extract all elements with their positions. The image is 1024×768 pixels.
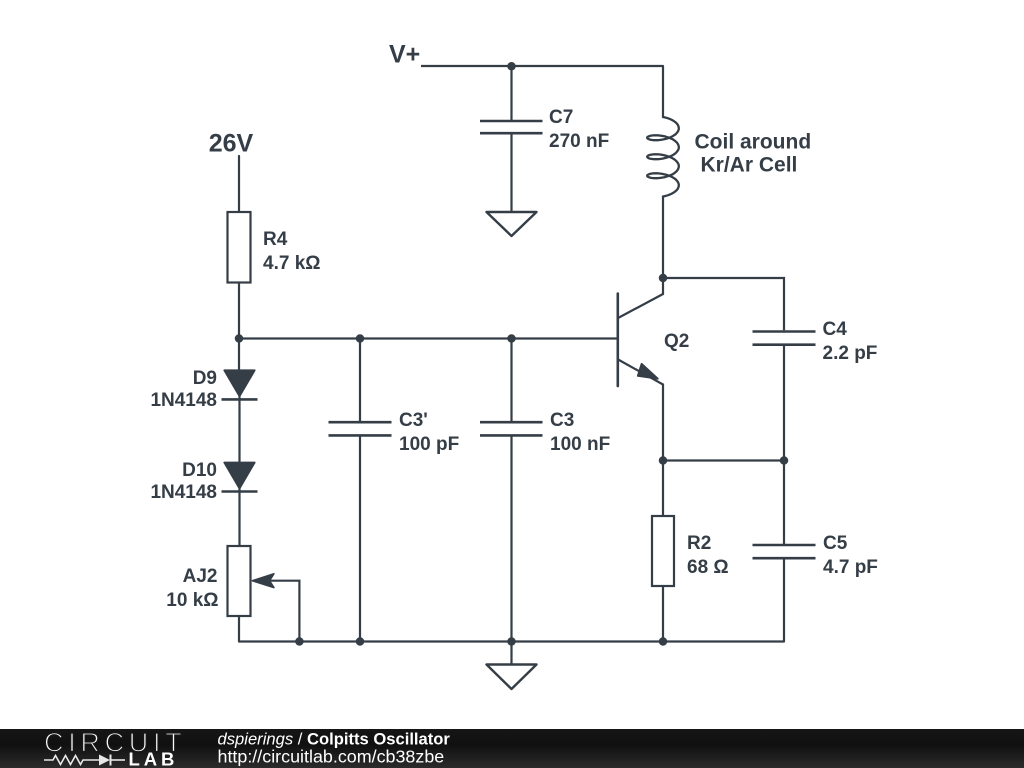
capacitor C3'	[329, 422, 392, 435]
wire collector vertical	[662, 278, 664, 294]
node junction dot wiper/bottom	[295, 637, 304, 646]
resistor R2	[652, 516, 674, 586]
node junction dot emitter/R2/C5 rail left	[659, 456, 668, 465]
wire C5 top lead	[783, 461, 785, 545]
wire wiper to bottom	[270, 581, 299, 642]
wire bottom rail	[239, 640, 784, 642]
wire coil bottom lead to collector node	[662, 197, 664, 279]
node junction dot ground/bottom	[507, 637, 516, 646]
wire C3' top lead	[359, 339, 361, 422]
svg-text:4.7 pF: 4.7 pF	[823, 557, 878, 578]
diode D9	[224, 370, 254, 396]
svg-text:Coil around: Coil around	[695, 131, 812, 154]
wire C4 bottom lead	[783, 346, 785, 461]
wire R2 bottom lead	[662, 586, 664, 642]
wire D10 to AJ2	[238, 489, 240, 546]
svg-text:C7: C7	[549, 107, 573, 128]
svg-text:AJ2: AJ2	[183, 566, 218, 587]
wire D9 to D10	[238, 397, 240, 462]
base bar	[616, 294, 619, 387]
svg-text:http://circuitlab.com/cb38zbe: http://circuitlab.com/cb38zbe	[218, 747, 445, 767]
transistor Q2	[618, 278, 663, 461]
svg-text:D10: D10	[182, 460, 217, 481]
potentiometer AJ2 body	[228, 546, 251, 616]
capacitor C5	[753, 545, 816, 558]
wire coil top lead	[662, 66, 664, 117]
inductor coil around Kr/Ar cell	[647, 117, 679, 197]
svg-text:1N4148: 1N4148	[150, 482, 217, 503]
svg-text:R2: R2	[687, 533, 711, 554]
potentiometer AJ2 wiper arrow	[252, 574, 274, 588]
resistor R4	[228, 212, 251, 283]
svg-text:68 Ω: 68 Ω	[687, 557, 729, 578]
ground (C7)	[487, 212, 537, 236]
wire top rail V+ to coil	[421, 65, 663, 67]
node junction dot C3'/bottom	[356, 637, 365, 646]
emitter arrow	[638, 364, 658, 379]
wire AJ2 to bottom rail	[238, 616, 240, 642]
wire 26V to R4	[238, 156, 240, 212]
svg-text:10 kΩ: 10 kΩ	[166, 590, 218, 611]
logo resistor-diode glyph	[44, 755, 125, 766]
svg-text:D9: D9	[193, 368, 217, 389]
node junction dot base rail / R4-D9	[235, 334, 244, 343]
node junction dot base rail / C3'	[356, 334, 365, 343]
svg-text:100 pF: 100 pF	[399, 434, 459, 455]
wire emitter vertical	[662, 385, 664, 461]
footer bar	[0, 729, 1024, 768]
svg-text:1N4148: 1N4148	[150, 390, 217, 411]
svg-text:100 nF: 100 nF	[550, 434, 610, 455]
wire base wire from left rail	[239, 337, 618, 339]
svg-text:Q2: Q2	[664, 331, 689, 352]
svg-text:C4: C4	[823, 319, 848, 340]
svg-text:V+: V+	[389, 41, 420, 69]
svg-text:Kr/Ar Cell: Kr/Ar Cell	[701, 154, 798, 177]
node junction dot R2/bottom	[659, 637, 668, 646]
node junction dot collector/coil/C4	[659, 274, 668, 283]
capacitor C4	[753, 332, 816, 345]
wire node to D9	[238, 339, 240, 370]
wire C5 bottom lead	[783, 559, 785, 641]
wire C3' bottom lead	[359, 437, 361, 642]
node junction dot base rail / C3	[507, 334, 516, 343]
capacitor C7	[480, 121, 543, 133]
svg-text:4.7 kΩ: 4.7 kΩ	[263, 253, 321, 274]
svg-text:R4: R4	[263, 229, 288, 250]
svg-text:270 nF: 270 nF	[549, 131, 609, 152]
svg-text:C5: C5	[823, 533, 848, 554]
wire collector node to C4 branch	[663, 278, 784, 330]
wire R2 top lead	[662, 461, 664, 517]
svg-text:2.2 pF: 2.2 pF	[823, 343, 878, 364]
wire C7 top lead	[510, 66, 512, 120]
node junction dot C4/C5 rail right	[780, 456, 789, 465]
wire C3 top lead	[510, 339, 512, 422]
diode D10	[224, 463, 254, 489]
svg-text:LAB: LAB	[129, 749, 179, 768]
wire R4 to base rail node	[238, 283, 240, 339]
wire C3 bottom lead	[510, 437, 512, 642]
emitter diagonal	[619, 360, 663, 385]
ground (bottom)	[510, 642, 512, 664]
svg-text:C3: C3	[550, 410, 574, 431]
wire emitter node rail	[663, 459, 784, 461]
svg-text:26V: 26V	[209, 130, 254, 158]
wire C7 bottom lead	[510, 134, 512, 211]
node junction dot V+ rail / C7	[507, 62, 516, 71]
svg-text:C3': C3'	[399, 410, 428, 431]
capacitor C3	[480, 422, 543, 435]
collector diagonal	[619, 294, 663, 318]
